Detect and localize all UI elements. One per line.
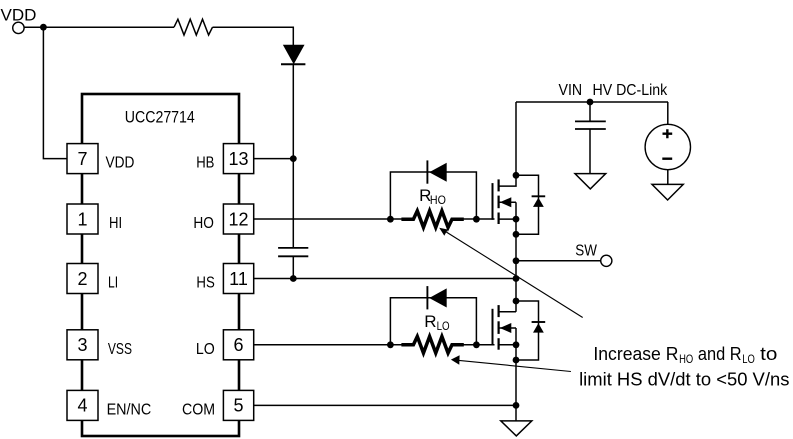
junction RHO left [387, 216, 394, 223]
svg-text:13: 13 [228, 149, 248, 169]
svg-text:VIN: VIN [559, 82, 583, 99]
ground COM [501, 421, 532, 436]
junction RLO left [387, 341, 394, 348]
svg-text:11: 11 [229, 269, 248, 289]
capacitor C-boot top plate [278, 247, 308, 249]
svg-text:VDD: VDD [106, 155, 135, 172]
transistor Q2 body stub [499, 327, 516, 329]
wire COM pin to ground node [254, 404, 516, 406]
svg-text:R: R [424, 312, 436, 331]
transistor Q2 gate bar [492, 309, 494, 346]
junction RLO right [473, 341, 480, 348]
svg-text:7: 7 [77, 149, 87, 169]
junction VIN cap [587, 99, 594, 106]
wire RLO to gate [461, 344, 495, 346]
wire Q1 body to source [515, 202, 517, 219]
pin 4 EN/NC [67, 390, 98, 420]
transistor Q2 body arrow [500, 323, 512, 333]
pin 6 LO [223, 330, 253, 360]
wire RHO bypass loop [390, 172, 476, 219]
wire HB pin to bootstrap node [254, 158, 294, 160]
pin 12 HO [223, 204, 253, 234]
junction Q1 branch rejoin [513, 231, 520, 238]
transistor Q2 drain stub [499, 311, 516, 313]
transistor Q2 channel segments [498, 305, 500, 350]
wire HS pin to switch node [254, 278, 516, 280]
junction HB node [290, 155, 297, 162]
capacitor C-vin bottom plate [575, 128, 606, 130]
capacitor C-vin top plate [575, 120, 606, 122]
wire SW stub [516, 260, 601, 262]
op IC U1 UCC27714 body [82, 94, 239, 436]
diode Q2 body cathode bar [532, 321, 546, 323]
capacitor C-boot bottom plate [278, 255, 308, 257]
wire VIN rail to source [667, 102, 669, 124]
wire LO pin to RLO [254, 344, 404, 346]
ground V1 [652, 184, 683, 200]
junction Q2 branch rejoin [513, 357, 520, 364]
wire VDD down to pin 7 [43, 27, 67, 158]
resistor R-boot (VDD to bootstrap diode) [174, 19, 213, 35]
svg-text:COM: COM [182, 401, 215, 418]
junction Q2 drain branch [513, 298, 520, 305]
source V1 plus sign [663, 129, 673, 138]
diode Q1 body cathode bar [532, 195, 546, 197]
svg-text:EN/NC: EN/NC [107, 401, 152, 418]
wire resistor to diode corner [213, 27, 294, 45]
wire C-boot to HS node [292, 256, 294, 278]
diode DLO anti-parallel [429, 288, 447, 307]
wire Q2 body-diode branch [516, 301, 539, 360]
svg-text:12: 12 [228, 209, 248, 229]
transistor Q1 drain stub [499, 102, 516, 186]
svg-text:Increase R: Increase R [593, 344, 678, 364]
svg-text:HV DC-Link: HV DC-Link [593, 82, 669, 99]
wire source to ground [667, 170, 669, 185]
svg-text:6: 6 [233, 335, 243, 355]
pin 2 LI [67, 264, 98, 294]
diode Q2 body anode triangle [533, 323, 544, 332]
transistor Q1 body arrow [500, 197, 512, 207]
svg-text:SW: SW [575, 242, 597, 259]
wire diode to HB node [292, 64, 294, 248]
svg-text:UCC27714: UCC27714 [125, 108, 195, 127]
pin 11 HS [223, 264, 253, 294]
svg-text:HS: HS [196, 275, 214, 292]
svg-text:HB: HB [196, 155, 214, 172]
pin 5 COM [223, 390, 253, 420]
svg-text:HI: HI [109, 215, 122, 232]
terminal VDD [13, 22, 24, 33]
svg-text:HO: HO [430, 193, 446, 207]
wire RHO to gate [461, 218, 495, 220]
label RLO [424, 312, 449, 333]
svg-text:HO: HO [193, 215, 214, 232]
label RHO [419, 186, 446, 207]
diode D1 cathode bar [281, 63, 305, 65]
source V1 HV DC-link [645, 124, 690, 169]
svg-text:limit HS dV/dt to <50 V/ns: limit HS dV/dt to <50 V/ns [579, 369, 789, 389]
resistor RLO [401, 337, 463, 354]
wire VIN cap upper lead [589, 102, 591, 121]
transistor Q1 body stub [499, 201, 516, 203]
diode DHO anti-parallel [429, 163, 447, 182]
svg-text:to: to [760, 344, 777, 364]
wire switch-node vertical [515, 219, 517, 312]
resistor RHO [401, 211, 463, 228]
wire Q2 body to source [515, 328, 517, 345]
svg-text:LI: LI [108, 275, 118, 292]
annotation arrow to RHO [439, 228, 583, 318]
svg-text:4: 4 [77, 396, 87, 416]
svg-text:VSS: VSS [108, 341, 132, 358]
svg-text:LO: LO [437, 319, 450, 333]
junction COM ground node [513, 402, 520, 409]
junction Q1 drain branch [513, 172, 520, 179]
junction RHO right [473, 216, 480, 223]
junction SW [513, 257, 520, 264]
wire Q1 body-diode branch [516, 175, 539, 234]
junction Q1 source [513, 216, 520, 223]
pin 13 HB [223, 144, 253, 174]
wire source to ground rail [515, 345, 517, 421]
junction HS rail [513, 275, 520, 282]
transistor Q2 source stub [499, 344, 516, 346]
wire VIN rail [516, 101, 668, 103]
transistor Q1 source stub [499, 218, 516, 220]
diode Q1 body anode triangle [533, 198, 544, 207]
terminal SW [601, 255, 612, 266]
source V1 minus sign [662, 157, 672, 159]
pin 3 VSS [67, 330, 98, 360]
junction VDD node [40, 24, 47, 31]
diode DHO cathode bar [426, 160, 428, 183]
svg-text:LO: LO [196, 341, 215, 358]
ground C-vin [575, 174, 606, 189]
svg-text:5: 5 [233, 396, 243, 416]
svg-text:and R: and R [698, 344, 742, 364]
transistor Q1 gate bar [492, 183, 494, 220]
svg-text:3: 3 [77, 335, 87, 355]
annotation arrow to RLO [451, 355, 571, 371]
svg-text:HO: HO [679, 352, 693, 366]
pin 1 HI [67, 204, 98, 234]
junction Q2 source [513, 341, 520, 348]
svg-text:2: 2 [77, 269, 87, 289]
svg-text:LO: LO [742, 352, 755, 366]
svg-text:1: 1 [77, 209, 87, 229]
pin 7 VDD [67, 144, 98, 174]
annotation text line 1 [593, 344, 777, 366]
wire VDD rail top [24, 26, 174, 28]
diode DLO cathode bar [426, 286, 428, 309]
transistor Q1 channel segments [498, 179, 500, 224]
junction HS bootstrap node [290, 275, 297, 282]
diode D1 bootstrap (anode) [284, 45, 304, 63]
wire VIN cap lower lead [589, 129, 591, 174]
wire RLO bypass loop [390, 298, 476, 345]
wire HO pin to RHO [254, 218, 404, 220]
